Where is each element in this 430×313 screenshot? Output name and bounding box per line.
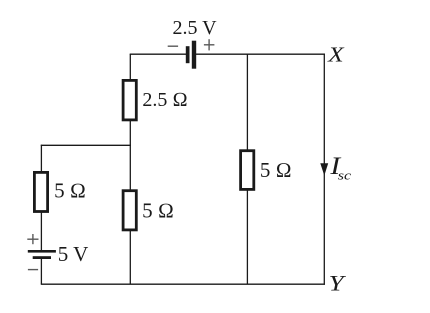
wire: top segment right of battery V2 to node X [196, 53, 325, 55]
svg-text:5 Ω: 5 Ω [54, 179, 86, 203]
wire: middle branch vertical between R1 and R3 [129, 121, 131, 191]
wire: left vertical between R2 and battery V1 [40, 213, 42, 251]
wire: middle branch vertical below R3 to bottom wire [129, 231, 131, 285]
svg-text:5 Ω: 5 Ω [142, 199, 174, 223]
wire: middle branch vertical from top wire to R1 [129, 54, 131, 80]
wire: top segment left of battery V2 [130, 53, 186, 55]
battery V1 5V long plate (positive) [28, 250, 56, 253]
wire: right vertical from X to Y [323, 54, 325, 285]
label: minus sign of V1 [28, 269, 38, 271]
battery V1 5V short plate (negative) [33, 256, 51, 259]
wire: left vertical from horizontal down to R2 [40, 145, 42, 172]
resistor R2 5 ohm (left branch) [34, 172, 47, 211]
resistor R3 5 ohm (middle branch) [123, 191, 136, 230]
svg-text:5 V: 5 V [58, 242, 89, 266]
wire: middle-right branch vertical below resistor R4 [246, 191, 248, 285]
label: plus sign of V1 [27, 234, 38, 244]
svg-text:sc: sc [338, 168, 352, 183]
battery V2 2.5V short plate (negative) [186, 46, 190, 63]
wire: left vertical below battery V1 to bottom wire [40, 259, 42, 284]
label: minus sign of V2 [168, 45, 178, 47]
resistor R4 5 ohm (middle-right branch) [241, 151, 254, 190]
wire: left horizontal connecting left branch to middle branch [41, 144, 131, 146]
resistor R1 2.5 ohm [123, 80, 136, 120]
arrow: short-circuit current direction [320, 163, 328, 175]
svg-text:X: X [327, 42, 345, 66]
battery V2 2.5V long plate (positive) [192, 41, 196, 69]
wire: middle-right branch vertical above resistor R4 [246, 54, 248, 150]
wire: bottom horizontal from left branch to node Y [41, 283, 325, 285]
svg-text:2.5 Ω: 2.5 Ω [142, 89, 187, 111]
svg-text:2.5 V: 2.5 V [173, 17, 218, 39]
svg-text:5 Ω: 5 Ω [260, 158, 292, 182]
label: plus sign of V2 [204, 39, 215, 50]
